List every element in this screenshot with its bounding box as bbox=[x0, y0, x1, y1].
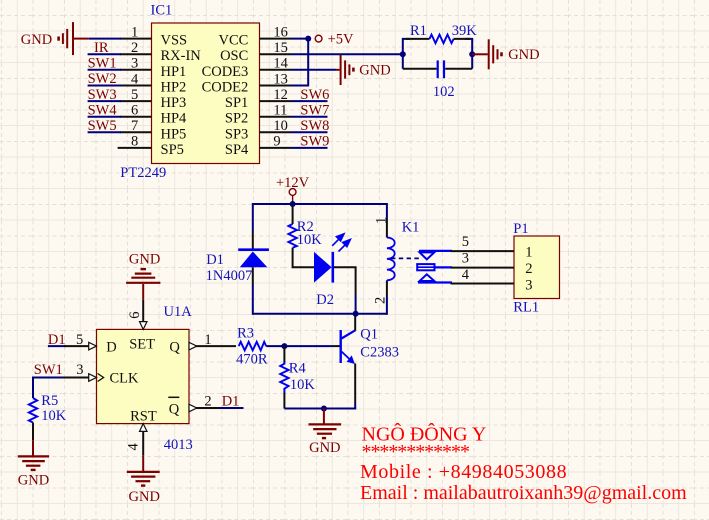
svg-text:5: 5 bbox=[462, 234, 469, 250]
svg-text:8: 8 bbox=[131, 134, 138, 150]
net label SW7 + wire bbox=[291, 102, 329, 118]
svg-text:1: 1 bbox=[204, 332, 211, 348]
svg-text:5: 5 bbox=[131, 87, 138, 103]
svg-text:HP4: HP4 bbox=[161, 111, 188, 127]
svg-text:GND: GND bbox=[359, 62, 390, 78]
pin 12 SP1 bbox=[225, 87, 291, 111]
pin 9 SP4 bbox=[225, 134, 291, 158]
svg-text:Q: Q bbox=[169, 339, 180, 355]
net label SW8 + wire bbox=[291, 118, 329, 134]
svg-text:39K: 39K bbox=[452, 23, 478, 39]
capacitor 102 leads bbox=[403, 68, 437, 70]
svg-text:1: 1 bbox=[525, 245, 532, 261]
svg-text:470R: 470R bbox=[236, 352, 268, 368]
svg-text:1N4007: 1N4007 bbox=[206, 268, 253, 284]
svg-text:3: 3 bbox=[462, 251, 469, 267]
svg-text:HP2: HP2 bbox=[161, 80, 187, 96]
svg-text:C2383: C2383 bbox=[360, 345, 399, 361]
svg-text:10K: 10K bbox=[297, 232, 323, 248]
net label SW5 + wire bbox=[88, 118, 121, 134]
transistor Q1 collector bbox=[342, 330, 356, 338]
svg-text:GND: GND bbox=[129, 489, 160, 505]
svg-text:SW2: SW2 bbox=[88, 71, 117, 87]
svg-text:9: 9 bbox=[273, 134, 280, 150]
relay K1 coil arcs bbox=[387, 238, 395, 281]
svg-text:Mobile : +84984053088: Mobile : +84984053088 bbox=[360, 461, 567, 483]
svg-text:SW5: SW5 bbox=[88, 118, 117, 134]
pin 15 OSC bbox=[220, 40, 291, 64]
svg-text:R5: R5 bbox=[41, 393, 58, 409]
ground GND above SET (flipped) bbox=[126, 269, 160, 300]
wire left branch down to D1 bbox=[252, 203, 254, 232]
svg-text:SW7: SW7 bbox=[300, 102, 329, 118]
svg-text:102: 102 bbox=[433, 84, 455, 100]
svg-text:IR: IR bbox=[94, 40, 109, 56]
relay contact common bbox=[417, 264, 434, 270]
svg-text:P1: P1 bbox=[513, 221, 528, 237]
svg-text:RX-IN: RX-IN bbox=[161, 48, 202, 64]
resistor R5 leads bbox=[32, 394, 34, 399]
pin 4 HP2 bbox=[120, 71, 186, 95]
net label IR + wire bbox=[88, 40, 121, 56]
CLK pin arrow bbox=[89, 374, 97, 382]
svg-text:SP3: SP3 bbox=[225, 126, 248, 142]
wire bottom rail bbox=[253, 313, 387, 315]
svg-text:CLK: CLK bbox=[110, 371, 140, 387]
LED D2 triangle bbox=[314, 252, 332, 283]
resistor R4 bottom lead bbox=[283, 388, 285, 393]
resistor R4 zigzag bbox=[280, 364, 288, 389]
svg-text:HP1: HP1 bbox=[161, 64, 187, 80]
svg-text:CODE2: CODE2 bbox=[202, 80, 249, 96]
resistor R2 bottom lead to LED bbox=[293, 248, 314, 268]
resistor R4 top lead bbox=[283, 346, 285, 362]
svg-text:16: 16 bbox=[273, 24, 288, 40]
wire +5V vertical to pin13 bbox=[291, 39, 308, 86]
wire emitter bottom rail bbox=[284, 408, 356, 410]
wire pin15 OSC to RC network bbox=[291, 53, 403, 55]
pin 10 SP3 bbox=[225, 118, 291, 142]
resistor R2 top lead bbox=[292, 204, 294, 224]
svg-text:K1: K1 bbox=[402, 220, 420, 236]
wire pin14 to GND bbox=[291, 69, 336, 71]
pin 5 HP3 bbox=[120, 87, 186, 111]
svg-text:10K: 10K bbox=[290, 377, 316, 393]
dashed link coil to contact bbox=[391, 257, 420, 259]
resistor R1 zigzag bbox=[430, 35, 454, 44]
diode D1 cathode bar bbox=[238, 248, 269, 251]
ground GND below Q1 bbox=[309, 409, 342, 439]
svg-text:GND: GND bbox=[309, 440, 340, 456]
svg-text:D1: D1 bbox=[222, 394, 240, 410]
wire D1 anode down bbox=[252, 267, 254, 284]
pin 7 HP5 bbox=[120, 118, 186, 142]
transistor Q1 emitter with arrow bbox=[342, 352, 353, 362]
P1 pin 4 bbox=[451, 267, 533, 293]
svg-text:2: 2 bbox=[373, 297, 389, 304]
svg-text:IC1: IC1 bbox=[151, 3, 173, 19]
svg-text:CODE3: CODE3 bbox=[202, 64, 249, 80]
svg-text:OSC: OSC bbox=[220, 48, 248, 64]
pin 6 SET wire bbox=[142, 300, 144, 322]
wire RC loop right bbox=[465, 39, 472, 69]
Qbar pin arrow bbox=[189, 404, 197, 412]
resistor R2 zigzag bbox=[288, 224, 296, 248]
svg-text:6: 6 bbox=[127, 312, 143, 319]
resistor R3 right lead bbox=[266, 345, 285, 347]
LED D2 emission arrows bbox=[332, 234, 350, 252]
svg-text:4: 4 bbox=[126, 443, 142, 451]
ground GND right of RC (rotated left) bbox=[472, 39, 501, 69]
svg-text:2: 2 bbox=[525, 261, 532, 277]
svg-text:SET: SET bbox=[129, 337, 155, 353]
svg-text:RST: RST bbox=[130, 409, 157, 425]
svg-text:SP1: SP1 bbox=[225, 95, 248, 111]
net label SW1 at CLK + wire bbox=[33, 362, 64, 394]
svg-text:2: 2 bbox=[204, 394, 211, 410]
net label SW3 + wire bbox=[88, 87, 121, 103]
P1 pin 3 bbox=[451, 251, 533, 278]
net label SW9 + wire bbox=[291, 134, 329, 150]
wire LED cathode right and down bbox=[334, 267, 356, 295]
pin 2 Qbar wire bbox=[196, 407, 220, 409]
net label SW1 + wire bbox=[88, 56, 121, 72]
LED D2 cathode bar bbox=[331, 252, 334, 283]
svg-text:SW6: SW6 bbox=[300, 87, 329, 103]
transistor Q1 base bar bbox=[340, 330, 342, 363]
svg-text:VCC: VCC bbox=[218, 33, 248, 49]
svg-text:6: 6 bbox=[131, 103, 138, 119]
svg-text:4: 4 bbox=[131, 71, 139, 87]
power port +5V bbox=[315, 35, 322, 42]
svg-text:************: ************ bbox=[362, 441, 470, 463]
svg-text:11: 11 bbox=[273, 103, 287, 119]
pin 3 HP1 bbox=[120, 56, 186, 80]
svg-text:SW8: SW8 bbox=[300, 118, 329, 134]
capacitor 102 plates bbox=[437, 60, 439, 78]
svg-text:HP5: HP5 bbox=[161, 126, 187, 142]
pin 1 Q wire bbox=[196, 345, 236, 347]
svg-text:R4: R4 bbox=[289, 361, 307, 377]
pin 4 RST wire bbox=[142, 431, 144, 455]
net label SW6 + wire bbox=[291, 87, 329, 103]
wire GND to pin1 bbox=[89, 38, 121, 40]
net label D1 at Qbar + wire bbox=[220, 394, 244, 410]
RST pin arrow bbox=[140, 424, 148, 432]
pin 2 RX-IN bbox=[120, 40, 201, 64]
ground GND below R5 bbox=[18, 440, 49, 470]
net label D1 at D pin + wire bbox=[48, 332, 66, 348]
svg-text:12: 12 bbox=[273, 87, 288, 103]
svg-text:GND: GND bbox=[18, 473, 49, 489]
net label SW2 + wire bbox=[88, 71, 121, 87]
svg-text:SP2: SP2 bbox=[225, 111, 248, 127]
svg-text:RL1: RL1 bbox=[513, 300, 539, 316]
svg-text:+5V: +5V bbox=[328, 31, 354, 47]
junction +12V rail bbox=[290, 201, 296, 207]
net label SW4 + wire bbox=[88, 102, 121, 118]
svg-text:2: 2 bbox=[131, 40, 138, 56]
node right of RC bbox=[469, 51, 475, 57]
pin 3 CLK wire bbox=[63, 377, 90, 379]
svg-text:GND: GND bbox=[129, 251, 160, 267]
wire base node to Q1 bbox=[284, 345, 332, 347]
svg-text:4013: 4013 bbox=[164, 437, 193, 453]
svg-text:15: 15 bbox=[273, 40, 288, 56]
resistor R3 zigzag bbox=[239, 342, 267, 351]
wire top rail bbox=[253, 203, 387, 205]
svg-text:D1: D1 bbox=[206, 252, 224, 268]
pin 5 D wire bbox=[64, 345, 90, 347]
svg-text:SW3: SW3 bbox=[88, 87, 117, 103]
svg-text:14: 14 bbox=[273, 56, 288, 72]
svg-text:R1: R1 bbox=[410, 23, 427, 39]
Q pin arrow bbox=[189, 342, 197, 350]
pin 8 SP5 bbox=[118, 134, 184, 158]
svg-text:GND: GND bbox=[21, 32, 52, 48]
svg-text:SW4: SW4 bbox=[88, 102, 118, 118]
wire RC loop left bbox=[403, 39, 410, 69]
SET pin arrow bbox=[140, 322, 148, 330]
svg-text:4: 4 bbox=[462, 267, 470, 283]
junction GND node bbox=[321, 406, 327, 412]
IC U1 body IC1 bbox=[152, 23, 260, 164]
pin 14 CODE3 bbox=[202, 56, 291, 80]
resistor R1 leads bbox=[406, 38, 430, 40]
svg-text:SW1: SW1 bbox=[34, 362, 63, 378]
pin 13 CODE2 bbox=[202, 71, 291, 95]
relay contact bottom (NC) bbox=[418, 281, 452, 283]
flip-flop U1A body bbox=[97, 329, 190, 423]
svg-text:HP3: HP3 bbox=[161, 95, 187, 111]
svg-text:1: 1 bbox=[131, 24, 138, 40]
svg-text:VSS: VSS bbox=[161, 33, 188, 49]
svg-text:SP5: SP5 bbox=[161, 142, 184, 158]
relay contact top (NO) bbox=[419, 250, 452, 252]
svg-text:3: 3 bbox=[76, 362, 83, 378]
svg-text:PT2249: PT2249 bbox=[120, 165, 166, 181]
svg-text:Email : mailabautroixanh39@gma: Email : mailabautroixanh39@gmail.com bbox=[360, 482, 687, 504]
svg-text:GND: GND bbox=[508, 47, 539, 63]
svg-text:10K: 10K bbox=[41, 408, 67, 424]
pin 16 VCC bbox=[218, 24, 291, 48]
D pin arrow bbox=[89, 342, 97, 350]
svg-text:3: 3 bbox=[131, 56, 138, 72]
svg-text:SW1: SW1 bbox=[88, 56, 117, 72]
connector P1 body bbox=[514, 236, 560, 299]
pin 11 SP2 bbox=[225, 103, 291, 127]
svg-text:SP4: SP4 bbox=[225, 142, 249, 158]
junction at +5V bbox=[305, 36, 311, 42]
resistor R5 zigzag bbox=[29, 398, 37, 423]
svg-text:Q: Q bbox=[169, 402, 180, 418]
ground GND below RST bbox=[127, 455, 160, 486]
pin 1 VSS bbox=[120, 24, 187, 48]
svg-text:10: 10 bbox=[273, 118, 288, 134]
diode D1 triangle bbox=[240, 252, 267, 268]
svg-text:1: 1 bbox=[373, 217, 389, 224]
svg-text:13: 13 bbox=[273, 71, 288, 87]
pin 6 HP4 bbox=[120, 103, 187, 127]
svg-text:7: 7 bbox=[131, 118, 138, 134]
svg-text:D2: D2 bbox=[316, 292, 334, 308]
relay K1 coil vertical wires bbox=[386, 203, 388, 219]
svg-text:SW9: SW9 bbox=[300, 134, 329, 150]
svg-text:5: 5 bbox=[76, 332, 83, 348]
CLK edge chevron bbox=[98, 374, 104, 382]
node left of RC bbox=[400, 51, 406, 57]
svg-text:D: D bbox=[106, 339, 116, 355]
svg-text:U1A: U1A bbox=[164, 304, 193, 320]
svg-text:Q1: Q1 bbox=[360, 327, 378, 343]
P1 pin 5 bbox=[451, 234, 533, 261]
ground GND at pin14 (rotated left) bbox=[336, 55, 353, 85]
svg-text:R3: R3 bbox=[237, 325, 254, 341]
wire pin16 to +5V bbox=[291, 38, 311, 40]
svg-text:3: 3 bbox=[525, 278, 532, 294]
svg-text:D1: D1 bbox=[48, 332, 66, 348]
junction base node bbox=[281, 343, 287, 349]
ground GND at IC1 pin 1 (rotated left) bbox=[59, 22, 89, 55]
junction collector node bbox=[353, 311, 359, 317]
